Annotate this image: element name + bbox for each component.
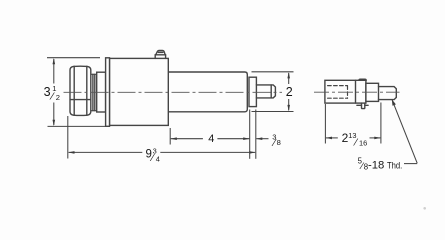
- threaded stub right view: [379, 87, 397, 100]
- svg-text:4: 4: [208, 133, 214, 145]
- set screw knob: [155, 50, 165, 58]
- end flange: [249, 77, 256, 106]
- svg-text:4: 4: [156, 154, 160, 163]
- dimension 2 13/16: [325, 103, 381, 144]
- dimension 3/8: [250, 110, 269, 159]
- speck: [423, 207, 426, 210]
- divider line: [355, 80, 357, 103]
- small cylinder: [97, 72, 106, 112]
- block: [325, 80, 366, 103]
- dimension 4: [170, 128, 249, 145]
- svg-text:-18: -18: [368, 159, 384, 171]
- thread label: [358, 156, 403, 172]
- dimension 3 1/2: [47, 58, 106, 127]
- step: [366, 83, 379, 101]
- body: [110, 58, 169, 125]
- top bump: [359, 79, 366, 80]
- front flange: [106, 58, 110, 127]
- svg-text:16: 16: [359, 139, 367, 148]
- dimension 2: [252, 72, 294, 112]
- svg-text:8: 8: [277, 138, 281, 147]
- main cylinder: [169, 72, 247, 112]
- washer ring: [91, 74, 97, 110]
- svg-text:2: 2: [56, 93, 60, 102]
- leader line: [392, 100, 417, 163]
- hidden thread hole: [328, 86, 348, 99]
- centerline right view: [314, 91, 400, 93]
- collet nut: [70, 66, 91, 115]
- dimension 9 3/4: [68, 116, 255, 159]
- bottom set screw: [357, 103, 368, 109]
- svg-text:2: 2: [286, 85, 293, 99]
- centerline main view: [64, 91, 283, 93]
- svg-text:Thd.: Thd.: [387, 160, 402, 170]
- threaded stub: [256, 85, 275, 98]
- svg-text:3: 3: [44, 85, 51, 99]
- right view: [325, 79, 396, 108]
